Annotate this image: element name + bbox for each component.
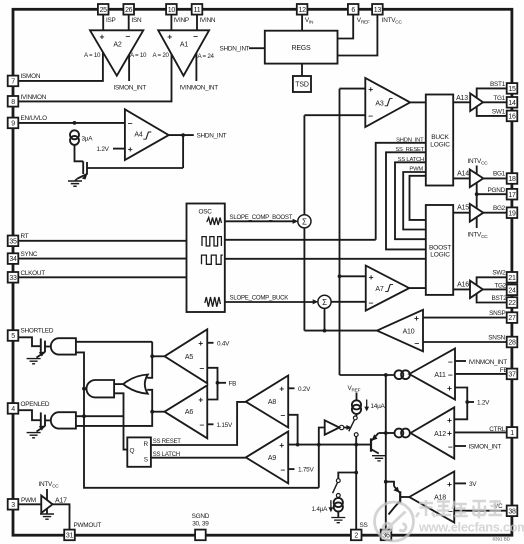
svg-text:BG1: BG1	[493, 171, 506, 178]
net PWM buck-boost	[403, 172, 426, 230]
svg-text:+: +	[198, 338, 203, 348]
wire SS LATCH line	[151, 457, 246, 459]
ground below T1	[27, 359, 41, 364]
wire INTVCC to A17	[46, 489, 48, 500]
pin 15 BST1	[507, 83, 518, 94]
pin 28 SNSN	[507, 337, 518, 348]
svg-text:BST2: BST2	[492, 295, 508, 302]
svg-text:A17: A17	[55, 498, 67, 505]
svg-text:ISMON_INT: ISMON_INT	[469, 443, 502, 450]
wire PGND	[477, 193, 507, 195]
wire inverter input from fault line	[319, 428, 325, 488]
mosfet M1	[82, 161, 84, 174]
pin 33 CLKOUT	[8, 272, 19, 283]
block BUCK LOGIC	[426, 95, 453, 186]
svg-text:0.4V: 0.4V	[217, 340, 230, 347]
T2 arrow	[39, 426, 45, 431]
pin 30,39 SGND	[195, 530, 206, 541]
arrowhead inverter to switch	[346, 425, 351, 430]
pin 36	[381, 530, 392, 541]
svg-text:ISMON_INT: ISMON_INT	[114, 85, 147, 92]
pin 9 EN/UVLO	[8, 118, 19, 129]
svg-text:6: 6	[351, 7, 355, 14]
node bus at A6 out	[150, 410, 154, 414]
svg-text:A5: A5	[185, 354, 193, 361]
svg-text:1: 1	[510, 430, 514, 437]
block TSD	[293, 76, 311, 92]
arrowhead slope_comp_buck	[313, 299, 319, 304]
waveform pulse train	[202, 237, 221, 246]
wire SS node line	[288, 444, 371, 446]
or gate O1	[123, 375, 148, 394]
svg-text:18: 18	[508, 176, 516, 183]
svg-text:+: +	[414, 313, 419, 323]
svg-text:TG1: TG1	[493, 95, 505, 102]
svg-text:BUCK: BUCK	[431, 134, 449, 141]
svg-text:A2: A2	[113, 42, 121, 49]
svg-text:37: 37	[508, 372, 516, 379]
svg-text:IVINMON: IVINMON	[21, 94, 47, 101]
net SHDN_INT into BUCK	[376, 143, 426, 240]
svg-text:22: 22	[508, 300, 516, 307]
inverter U1	[325, 420, 340, 434]
pin 2 SS	[351, 530, 362, 541]
svg-text:7: 7	[11, 79, 15, 86]
svg-text:SW2: SW2	[492, 270, 506, 277]
wire BG2	[483, 212, 506, 214]
svg-text:A = 10: A = 10	[130, 52, 147, 59]
svg-text:14: 14	[508, 100, 516, 107]
node PGND	[475, 192, 479, 196]
svg-text:A1: A1	[180, 42, 188, 49]
svg-text:34: 34	[9, 256, 17, 263]
amp A11	[409, 349, 455, 400]
svg-text:EN/UVLO: EN/UVLO	[21, 115, 48, 122]
ground below A17	[40, 514, 54, 519]
svg-text:A7: A7	[375, 286, 383, 293]
svg-text:A3: A3	[375, 100, 383, 107]
arrow line 14uA	[366, 400, 368, 409]
transistor Q2	[386, 482, 394, 487]
svg-text:+: +	[279, 384, 284, 394]
wire A4 output down to M1	[182, 135, 184, 168]
svg-text:A9: A9	[268, 455, 276, 462]
node sum2 tap on sense line	[323, 329, 327, 333]
svg-text:A14: A14	[457, 170, 469, 177]
wire SNSN to A10 -	[423, 341, 507, 343]
svg-text:LOGIC: LOGIC	[430, 252, 450, 259]
wire FB pin37 to A11	[455, 373, 507, 375]
summer sum1	[298, 215, 311, 228]
svg-text:3µA: 3µA	[82, 136, 94, 143]
svg-text:SHDN_INT: SHDN_INT	[220, 46, 250, 53]
latch SR	[127, 437, 151, 466]
comparator A4	[125, 109, 169, 160]
svg-text:OSC: OSC	[199, 209, 213, 216]
svg-text:30, 39: 30, 39	[192, 521, 209, 528]
wire TG1	[483, 101, 507, 103]
node VC at A12 out	[384, 431, 388, 435]
wire 1.4uA to ground	[337, 512, 339, 518]
driver A15	[470, 204, 484, 222]
pin 8 IVINMON	[8, 96, 19, 107]
and gate AND2	[51, 412, 76, 428]
wire sum2 out to A7 -	[331, 301, 366, 303]
wire SNSP to A10 +	[423, 317, 507, 319]
wire A4 output to SHDN_INT stub	[169, 134, 194, 136]
stub ISMON_INT at A12	[454, 445, 466, 447]
svg-text:IVINN: IVINN	[200, 17, 216, 24]
svg-text:IVINP: IVINP	[174, 17, 189, 24]
pin 21 SW2	[507, 272, 518, 283]
pin 19 BG2	[507, 207, 518, 218]
wire inverter out arrow	[344, 427, 348, 429]
comparator A3	[365, 78, 410, 127]
wire REGS to TSD	[301, 64, 303, 76]
svg-text:SW1: SW1	[492, 109, 506, 116]
node fault bus at AND3 out	[82, 387, 86, 391]
svg-text:SS RESET: SS RESET	[153, 439, 182, 445]
svg-text:Σ: Σ	[322, 298, 327, 307]
pin 24 TG2	[507, 285, 518, 296]
svg-text:CLKOUT: CLKOUT	[21, 270, 46, 277]
comparator A6	[165, 385, 208, 438]
svg-text:SLOPE_COMP_BUCK: SLOPE_COMP_BUCK	[230, 295, 289, 302]
svg-text:–: –	[200, 363, 205, 373]
svg-text:38: 38	[508, 508, 516, 515]
svg-text:A16: A16	[457, 281, 469, 288]
wire A3 - input	[304, 114, 365, 116]
wire 3uA to mosfet M1	[75, 146, 84, 162]
arrowhead slope_comp_boost	[293, 219, 299, 224]
arrowhead 14uA	[364, 407, 369, 412]
svg-text:–: –	[369, 297, 374, 307]
pin 31 PWMOUT	[64, 530, 75, 541]
svg-text:www.elecfans.com: www.elecfans.com	[418, 520, 524, 535]
wire SS RESET line	[151, 402, 246, 445]
svg-text:+: +	[100, 32, 105, 42]
label VREF wire to 14uA	[356, 393, 358, 401]
node SS discharge branch	[354, 471, 358, 475]
svg-text:+: +	[198, 395, 203, 405]
pin 38 VC	[507, 506, 518, 517]
svg-text:–: –	[448, 369, 453, 379]
and gate A3g	[87, 380, 115, 397]
svg-text:ISP: ISP	[106, 17, 116, 24]
svg-text:LOGIC: LOGIC	[430, 141, 450, 148]
wire switch to SS node	[355, 437, 357, 445]
svg-text:15: 15	[508, 86, 516, 93]
current source 1.4uA	[334, 498, 343, 507]
pin 12 VIN	[297, 4, 308, 15]
wire A3 minus vertical through sum1	[303, 115, 305, 215]
pin 5 SHORTLED	[8, 330, 19, 341]
wire A7 out to BOOST LOGIC	[409, 287, 426, 289]
stub IVINMON_INT at A11	[455, 360, 466, 362]
transistor Q1 bar	[370, 438, 372, 451]
svg-text:–: –	[448, 441, 453, 451]
svg-text:PWM: PWM	[409, 167, 423, 173]
svg-text:A = 24: A = 24	[198, 53, 215, 60]
svg-text:SNSP: SNSP	[489, 310, 505, 317]
node VC at Q2	[384, 480, 388, 484]
node SS line at inverter tap	[317, 443, 321, 447]
svg-text:–: –	[368, 111, 373, 121]
svg-text:–: –	[200, 420, 205, 430]
wire A6 out to bus	[152, 411, 164, 413]
svg-text:IVINMON_INT: IVINMON_INT	[180, 85, 219, 92]
pin 25 ISP	[98, 4, 109, 15]
amp A12	[411, 407, 455, 458]
node A4 output	[181, 133, 185, 137]
svg-text:8391 BD: 8391 BD	[492, 537, 510, 542]
wire current sense line to A10	[304, 330, 377, 332]
svg-text:IVINMON_INT: IVINMON_INT	[469, 359, 508, 366]
svg-text:ISN: ISN	[132, 17, 143, 24]
svg-text:0.2V: 0.2V	[298, 386, 311, 393]
svg-text:12: 12	[299, 7, 307, 14]
svg-text:+: +	[447, 479, 452, 489]
node SS line at SS vertical	[354, 443, 358, 447]
pin 26 ISN	[123, 4, 134, 15]
stub 1.15V at A6	[207, 423, 213, 425]
wire BOOST to A15	[453, 212, 470, 214]
stub 1.75V at A9	[288, 468, 294, 470]
svg-text:–: –	[415, 338, 420, 348]
svg-text:17: 17	[508, 192, 516, 199]
wire bus lower segment	[76, 390, 152, 426]
svg-text:SHDN_INT: SHDN_INT	[197, 133, 227, 140]
wire TG2	[483, 288, 507, 290]
node FB tap	[216, 381, 220, 385]
waveform buck sawtooth	[205, 297, 221, 307]
svg-text:26: 26	[125, 7, 133, 14]
svg-text:A = 20: A = 20	[153, 52, 170, 59]
wire SS discharge branch	[338, 473, 356, 479]
wire VC line to error amp outputs	[340, 374, 395, 376]
svg-text:A13: A13	[456, 95, 468, 102]
buffer A17	[41, 496, 52, 514]
current source 3uA	[70, 130, 79, 139]
comparator A7	[366, 266, 409, 311]
svg-text:–: –	[448, 356, 453, 366]
wire A15 INTVCC below	[476, 217, 478, 228]
wire INTVCC to A14	[476, 166, 478, 174]
svg-text:9: 9	[11, 121, 15, 128]
ground below 1.4uA	[331, 518, 345, 523]
wire EN/UVLO pin9 to A4 -	[18, 122, 125, 124]
waveform square wave	[202, 255, 223, 264]
wire 14uA to switch	[356, 414, 358, 416]
wire VC vertical A3 +	[339, 89, 341, 375]
wire A7 + input	[340, 275, 366, 277]
and gate AND1	[51, 338, 76, 354]
svg-text:1.2V: 1.2V	[97, 146, 110, 153]
wire A1 left tap A=20 to IVINMON pin8	[18, 54, 171, 101]
hysteresis glyph A3	[385, 99, 393, 106]
wire BUCK to A14	[453, 177, 470, 179]
svg-text:–: –	[126, 31, 131, 41]
svg-text:BOOST: BOOST	[429, 245, 451, 252]
wire A5 - to FB node	[207, 368, 217, 383]
svg-text:TSD: TSD	[295, 82, 309, 89]
wire A3 out to BUCK LOGIC	[410, 101, 426, 103]
switch SS charge	[353, 416, 357, 420]
op-amp A2	[90, 30, 143, 75]
svg-text:SYNC: SYNC	[21, 251, 38, 258]
svg-text:A4: A4	[134, 132, 142, 139]
Q2 emitter arrow	[393, 487, 399, 493]
svg-text:+: +	[128, 144, 133, 154]
svg-text:24: 24	[508, 287, 516, 294]
svg-text:SGND: SGND	[192, 513, 210, 520]
pin 4 OPENLED	[8, 403, 19, 414]
gm output symbol A11	[395, 370, 404, 379]
svg-text:REGS: REGS	[291, 45, 311, 52]
Q1 emitter arrow	[372, 434, 378, 441]
svg-text:OPENLED: OPENLED	[21, 401, 50, 408]
svg-text:A15: A15	[457, 205, 469, 212]
svg-text:–: –	[193, 31, 198, 41]
comparator A9	[246, 431, 288, 483]
svg-text:S: S	[144, 456, 148, 463]
wire VC vertical to pin36	[385, 375, 387, 530]
wire A2 right tap A=10 to ISMON_INT stub	[128, 55, 130, 81]
wire AND2 upper input to latch bus	[76, 415, 124, 417]
pin 14 TG1	[507, 97, 518, 108]
svg-text:–: –	[281, 464, 286, 474]
svg-text:SS: SS	[360, 522, 368, 529]
summer sum2	[318, 295, 331, 308]
wire OSC square line to BOOST LOGIC	[225, 258, 426, 260]
svg-text:Σ: Σ	[302, 217, 307, 226]
svg-text:+: +	[369, 272, 374, 282]
wire pin5 to T1 gate	[18, 337, 41, 346]
wire CLKOUT pin33 to OSC	[18, 276, 186, 278]
ground below Q1	[372, 456, 386, 461]
watermark CJK glyph blocks	[416, 500, 502, 519]
svg-text:RT: RT	[21, 233, 29, 240]
wire A1 right tap A=24 to IVINMON_INT stub	[195, 53, 197, 81]
pin 3 PWM	[8, 499, 19, 510]
wire A2 left tap A=10 to ISMON pin7	[18, 52, 103, 81]
ground below M1	[68, 179, 82, 187]
stub FB tick	[218, 382, 227, 384]
wire AND1 upper input	[76, 341, 152, 343]
svg-text:2: 2	[354, 533, 358, 540]
svg-text:SHDN_INT: SHDN_INT	[396, 137, 424, 143]
wire bus upper segment	[147, 342, 152, 378]
wire SHDN_INT stub into REGS	[249, 47, 265, 49]
svg-text:4: 4	[11, 406, 15, 413]
svg-text:BST1: BST1	[490, 81, 506, 88]
pin 13 INTVCC	[372, 4, 383, 15]
wire CTRL pin1 to A12	[454, 431, 506, 433]
svg-text:–: –	[128, 118, 133, 128]
stub 1.2V tick	[467, 401, 474, 403]
svg-text:1.75V: 1.75V	[298, 467, 314, 474]
net buck-boost interconnect	[410, 176, 426, 220]
pin 10 IVINP	[166, 4, 177, 15]
svg-text:Q: Q	[130, 447, 135, 454]
svg-text:A11: A11	[434, 372, 446, 379]
wire A17 out to PWMOUT pin31	[53, 504, 70, 529]
wire A6 + to FB node	[207, 383, 217, 400]
node EN 3uA tap	[73, 121, 77, 125]
wire SYNC pin34 to OSC	[18, 258, 186, 260]
amp A10	[377, 310, 423, 352]
wire BUCK to A13	[453, 101, 470, 103]
wire SS vertical to pin2	[355, 445, 357, 530]
wire A8 - to SS node	[288, 415, 297, 445]
wire OSC clock line to SHDN vertical	[225, 239, 376, 241]
svg-text:PWM: PWM	[21, 497, 36, 504]
svg-text:ISMON: ISMON	[21, 73, 41, 80]
wire AND3 lower input to latch Q	[114, 393, 127, 449]
transistor T2	[40, 412, 42, 428]
pin 35 RT	[8, 236, 19, 247]
transistor T1	[40, 338, 42, 354]
driver A16	[470, 281, 483, 299]
wire BOOST to A16	[453, 288, 470, 290]
svg-text:13: 13	[374, 7, 382, 14]
svg-text:3V: 3V	[469, 481, 477, 488]
svg-text:33: 33	[9, 275, 17, 282]
wire ISN pin26 to A2 -	[128, 15, 130, 31]
svg-text:+: +	[447, 415, 452, 425]
svg-text:1.4µA: 1.4µA	[312, 506, 329, 513]
svg-text:1.15V: 1.15V	[217, 422, 233, 429]
wire BG1	[483, 177, 506, 179]
wire SW1	[477, 107, 507, 116]
node A7 + tap on VC	[338, 274, 342, 278]
amp A18	[409, 472, 454, 523]
svg-text:PWMOUT: PWMOUT	[74, 522, 102, 529]
comparator A8	[246, 376, 288, 428]
svg-text:28: 28	[508, 340, 516, 347]
stub 0.2V at A8	[288, 387, 294, 389]
wire RT pin35 to OSC	[18, 240, 186, 242]
stub 3V at A18	[454, 482, 466, 484]
wire A14-A15 common	[476, 183, 478, 209]
svg-text:TG2: TG2	[494, 282, 506, 289]
svg-text:SS LATCH: SS LATCH	[153, 452, 180, 458]
svg-text:31: 31	[66, 533, 74, 540]
wire AND3 out to fault bus	[84, 388, 87, 390]
svg-text:SS LATCH: SS LATCH	[398, 157, 424, 163]
pin 1 CTRL	[507, 427, 518, 438]
wire REGS to VREF pin6	[338, 15, 354, 39]
T1 arrow	[39, 352, 45, 357]
node fault bus at AND2	[82, 414, 86, 418]
wire A17 ground	[46, 509, 48, 514]
svg-text:–: –	[281, 410, 286, 420]
comparator A5	[165, 329, 208, 383]
svg-text:8: 8	[11, 99, 15, 106]
svg-text:FB: FB	[500, 367, 508, 374]
waveform boost sawtooth	[207, 218, 222, 226]
svg-text:1.2V: 1.2V	[477, 400, 490, 407]
M1 source arrow	[82, 173, 88, 179]
svg-text:A6: A6	[185, 409, 193, 416]
svg-text:25: 25	[100, 7, 108, 14]
svg-text:11: 11	[194, 7, 201, 14]
pin 37 FB	[507, 369, 518, 380]
svg-text:SLOPE_COMP_BOOST: SLOPE_COMP_BOOST	[230, 214, 293, 221]
pin 27 SNSP	[507, 312, 518, 323]
node SS line at A8 tap	[296, 443, 300, 447]
net SS_RESET buck-boost	[386, 152, 426, 249]
